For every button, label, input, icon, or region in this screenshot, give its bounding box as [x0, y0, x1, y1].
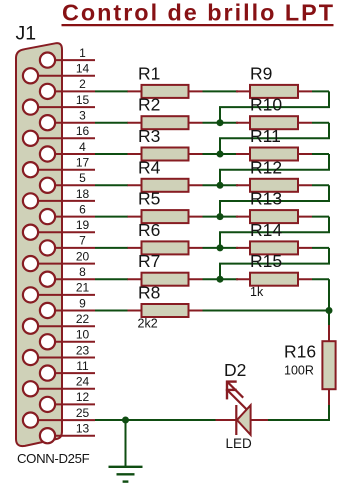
- resistor R12 (1k): [236, 179, 312, 192]
- wire: R10 output lead: [312, 122, 329, 124]
- svg-text:R1: R1: [138, 63, 160, 83]
- pin 3 of J1: [40, 109, 95, 131]
- wire: R5 output to R13 input: [203, 216, 239, 218]
- pin 24 of J1: [23, 375, 95, 397]
- wire: step from R11 output down to R12 input: [220, 154, 329, 185]
- resistor R13 (1k): [236, 210, 312, 223]
- wire: step from R10 output down to R11 input: [220, 123, 329, 154]
- resistor R6 (2k2): [128, 241, 203, 254]
- svg-text:23: 23: [76, 343, 90, 357]
- pin 22 of J1: [23, 312, 95, 334]
- svg-text:LED: LED: [226, 436, 253, 451]
- resistor R1 (2k2): [128, 85, 203, 98]
- pin 25 of J1: [23, 406, 95, 428]
- wire: R9 output lead: [312, 90, 329, 92]
- svg-text:R4: R4: [138, 157, 161, 177]
- svg-text:R2: R2: [138, 95, 160, 115]
- wire: J1 pin 25 to LED cathode / ground node: [95, 419, 216, 421]
- resistor R16 (100R, vertical): [322, 325, 335, 406]
- junction dot at R12 input: [217, 182, 224, 189]
- wire: J1 pin 3 to R2: [95, 122, 128, 124]
- svg-text:8: 8: [79, 265, 86, 279]
- wire: R12 output lead: [312, 184, 329, 186]
- wire: step from R13 output down to R14 input: [220, 217, 329, 248]
- wire: R3 output to R11 input: [203, 153, 239, 155]
- resistor R4 (2k2): [128, 179, 203, 192]
- junction dot at R13 input: [217, 213, 224, 220]
- wire: R13 output lead: [312, 216, 329, 218]
- svg-text:R10: R10: [250, 95, 282, 115]
- pin 20 of J1: [23, 249, 95, 271]
- pin 21 of J1: [23, 281, 95, 303]
- svg-text:D2: D2: [224, 360, 246, 380]
- svg-text:R13: R13: [250, 189, 282, 209]
- svg-text:17: 17: [76, 156, 90, 170]
- wire: J1 pin 6 to R5: [95, 216, 128, 218]
- wire: R4 output to R12 input: [203, 184, 239, 186]
- svg-text:R16: R16: [284, 342, 316, 362]
- wire: J1 pin 4 to R3: [95, 153, 128, 155]
- junction dot at R10 input: [217, 119, 224, 126]
- wire: R11 output lead: [312, 153, 329, 155]
- wire: J1 pin 9 to R8: [95, 310, 128, 312]
- wire: R15 output lead: [312, 278, 329, 280]
- svg-text:14: 14: [76, 62, 90, 76]
- pin 19 of J1: [23, 218, 95, 240]
- resistor R8 (2k2): [128, 304, 203, 317]
- svg-text:18: 18: [76, 187, 90, 201]
- wire: step from R9 output down to R10 input: [220, 91, 329, 122]
- LED arrow 1: [226, 381, 243, 398]
- wire: R2 output to R10 input: [203, 122, 239, 124]
- svg-text:5: 5: [79, 171, 86, 185]
- ground symbol: [109, 420, 143, 482]
- svg-text:13: 13: [76, 422, 90, 436]
- junction dot at ground node: [122, 417, 129, 424]
- junction dot at R14 input: [217, 244, 224, 251]
- svg-text:22: 22: [76, 312, 90, 326]
- svg-text:R15: R15: [250, 251, 282, 271]
- wire: step from R14 output down to R15 input: [220, 248, 329, 279]
- svg-text:CONN-D25F: CONN-D25F: [17, 451, 90, 466]
- wire: R1 output to R9 input: [203, 90, 239, 92]
- wire: bus junction to R16 top: [328, 311, 330, 326]
- pin 23 of J1: [23, 343, 95, 365]
- resistor R2 (2k2): [128, 116, 203, 129]
- svg-text:20: 20: [76, 249, 90, 263]
- junction dot at bus (R8/R15/R16 node): [326, 307, 333, 314]
- pin 11 of J1: [40, 359, 95, 381]
- pin 1 of J1: [40, 46, 95, 68]
- resistor R15 (1k): [236, 273, 312, 286]
- pin 7 of J1: [40, 234, 95, 256]
- svg-text:7: 7: [79, 234, 86, 248]
- pin 12 of J1: [40, 390, 95, 412]
- svg-text:1: 1: [79, 46, 86, 60]
- pin 5 of J1: [40, 171, 95, 193]
- svg-text:2k2: 2k2: [138, 316, 158, 330]
- resistor R9 (1k): [236, 85, 312, 98]
- svg-text:Control de brillo LPT: Control de brillo LPT: [62, 0, 334, 26]
- svg-text:21: 21: [76, 281, 90, 295]
- wire: R16 bottom to LED anode corner: [268, 405, 329, 420]
- title "Control de brillo LPT": [62, 0, 334, 26]
- svg-text:16: 16: [76, 124, 90, 138]
- svg-text:R3: R3: [138, 126, 160, 146]
- wire: R6 output to R14 input: [203, 247, 239, 249]
- wire: R15 output down to bus junction: [328, 279, 330, 310]
- resistor R10 (1k): [236, 116, 312, 129]
- wire: J1 pin 8 to R7: [95, 278, 128, 280]
- svg-text:R5: R5: [138, 189, 160, 209]
- svg-text:R7: R7: [138, 251, 160, 271]
- LED arrow 2: [226, 389, 247, 410]
- pin 17 of J1: [23, 156, 95, 178]
- pin 10 of J1: [40, 328, 95, 350]
- svg-text:9: 9: [79, 296, 86, 310]
- LED D2: [216, 405, 269, 435]
- svg-text:R6: R6: [138, 220, 160, 240]
- wire: R8 output to bus junction: [203, 310, 330, 312]
- svg-text:24: 24: [76, 375, 90, 389]
- wire: R14 output lead: [312, 247, 329, 249]
- pin 15 of J1: [23, 93, 95, 115]
- wire: step from R12 output down to R13 input: [220, 185, 329, 216]
- resistor R5 (2k2): [128, 210, 203, 223]
- pin 8 of J1: [40, 265, 95, 287]
- wire: J1 pin 5 to R4: [95, 184, 128, 186]
- pin 2 of J1: [40, 77, 95, 99]
- pin 4 of J1: [40, 140, 95, 162]
- resistor R7 (2k2): [128, 273, 203, 286]
- pin 13 of J1: [40, 422, 95, 444]
- junction dot at R15 input: [217, 276, 224, 283]
- junction dot at R11 input: [217, 151, 224, 158]
- svg-text:R14: R14: [250, 220, 282, 240]
- wire: J1 pin 7 to R6: [95, 247, 128, 249]
- svg-text:12: 12: [76, 390, 90, 404]
- svg-text:R8: R8: [138, 283, 160, 303]
- pin 6 of J1: [40, 202, 95, 224]
- svg-text:15: 15: [76, 93, 90, 107]
- svg-text:100R: 100R: [284, 364, 314, 378]
- svg-text:2: 2: [79, 77, 86, 91]
- svg-text:J1: J1: [16, 23, 37, 45]
- svg-text:R11: R11: [250, 126, 281, 146]
- pin 16 of J1: [23, 124, 95, 146]
- svg-text:25: 25: [76, 406, 90, 420]
- connector J1 body (CONN-D25F shell): [16, 43, 62, 446]
- pin 9 of J1: [40, 296, 95, 318]
- pin 18 of J1: [23, 187, 95, 209]
- svg-text:4: 4: [79, 140, 86, 154]
- svg-text:3: 3: [79, 109, 86, 123]
- resistor R14 (1k): [236, 241, 312, 254]
- svg-text:6: 6: [79, 202, 86, 216]
- resistor R3 (2k2): [128, 148, 203, 161]
- resistor R11 (1k): [236, 148, 312, 161]
- pin 14 of J1: [23, 62, 95, 84]
- svg-text:19: 19: [76, 218, 90, 232]
- svg-text:1k: 1k: [250, 285, 264, 299]
- svg-text:10: 10: [76, 328, 90, 342]
- svg-text:R9: R9: [250, 63, 272, 83]
- wire: R7 output to R15 input: [203, 278, 239, 280]
- svg-text:R12: R12: [250, 157, 282, 177]
- svg-text:11: 11: [76, 359, 89, 373]
- wire: J1 pin 2 to R1: [95, 90, 128, 92]
